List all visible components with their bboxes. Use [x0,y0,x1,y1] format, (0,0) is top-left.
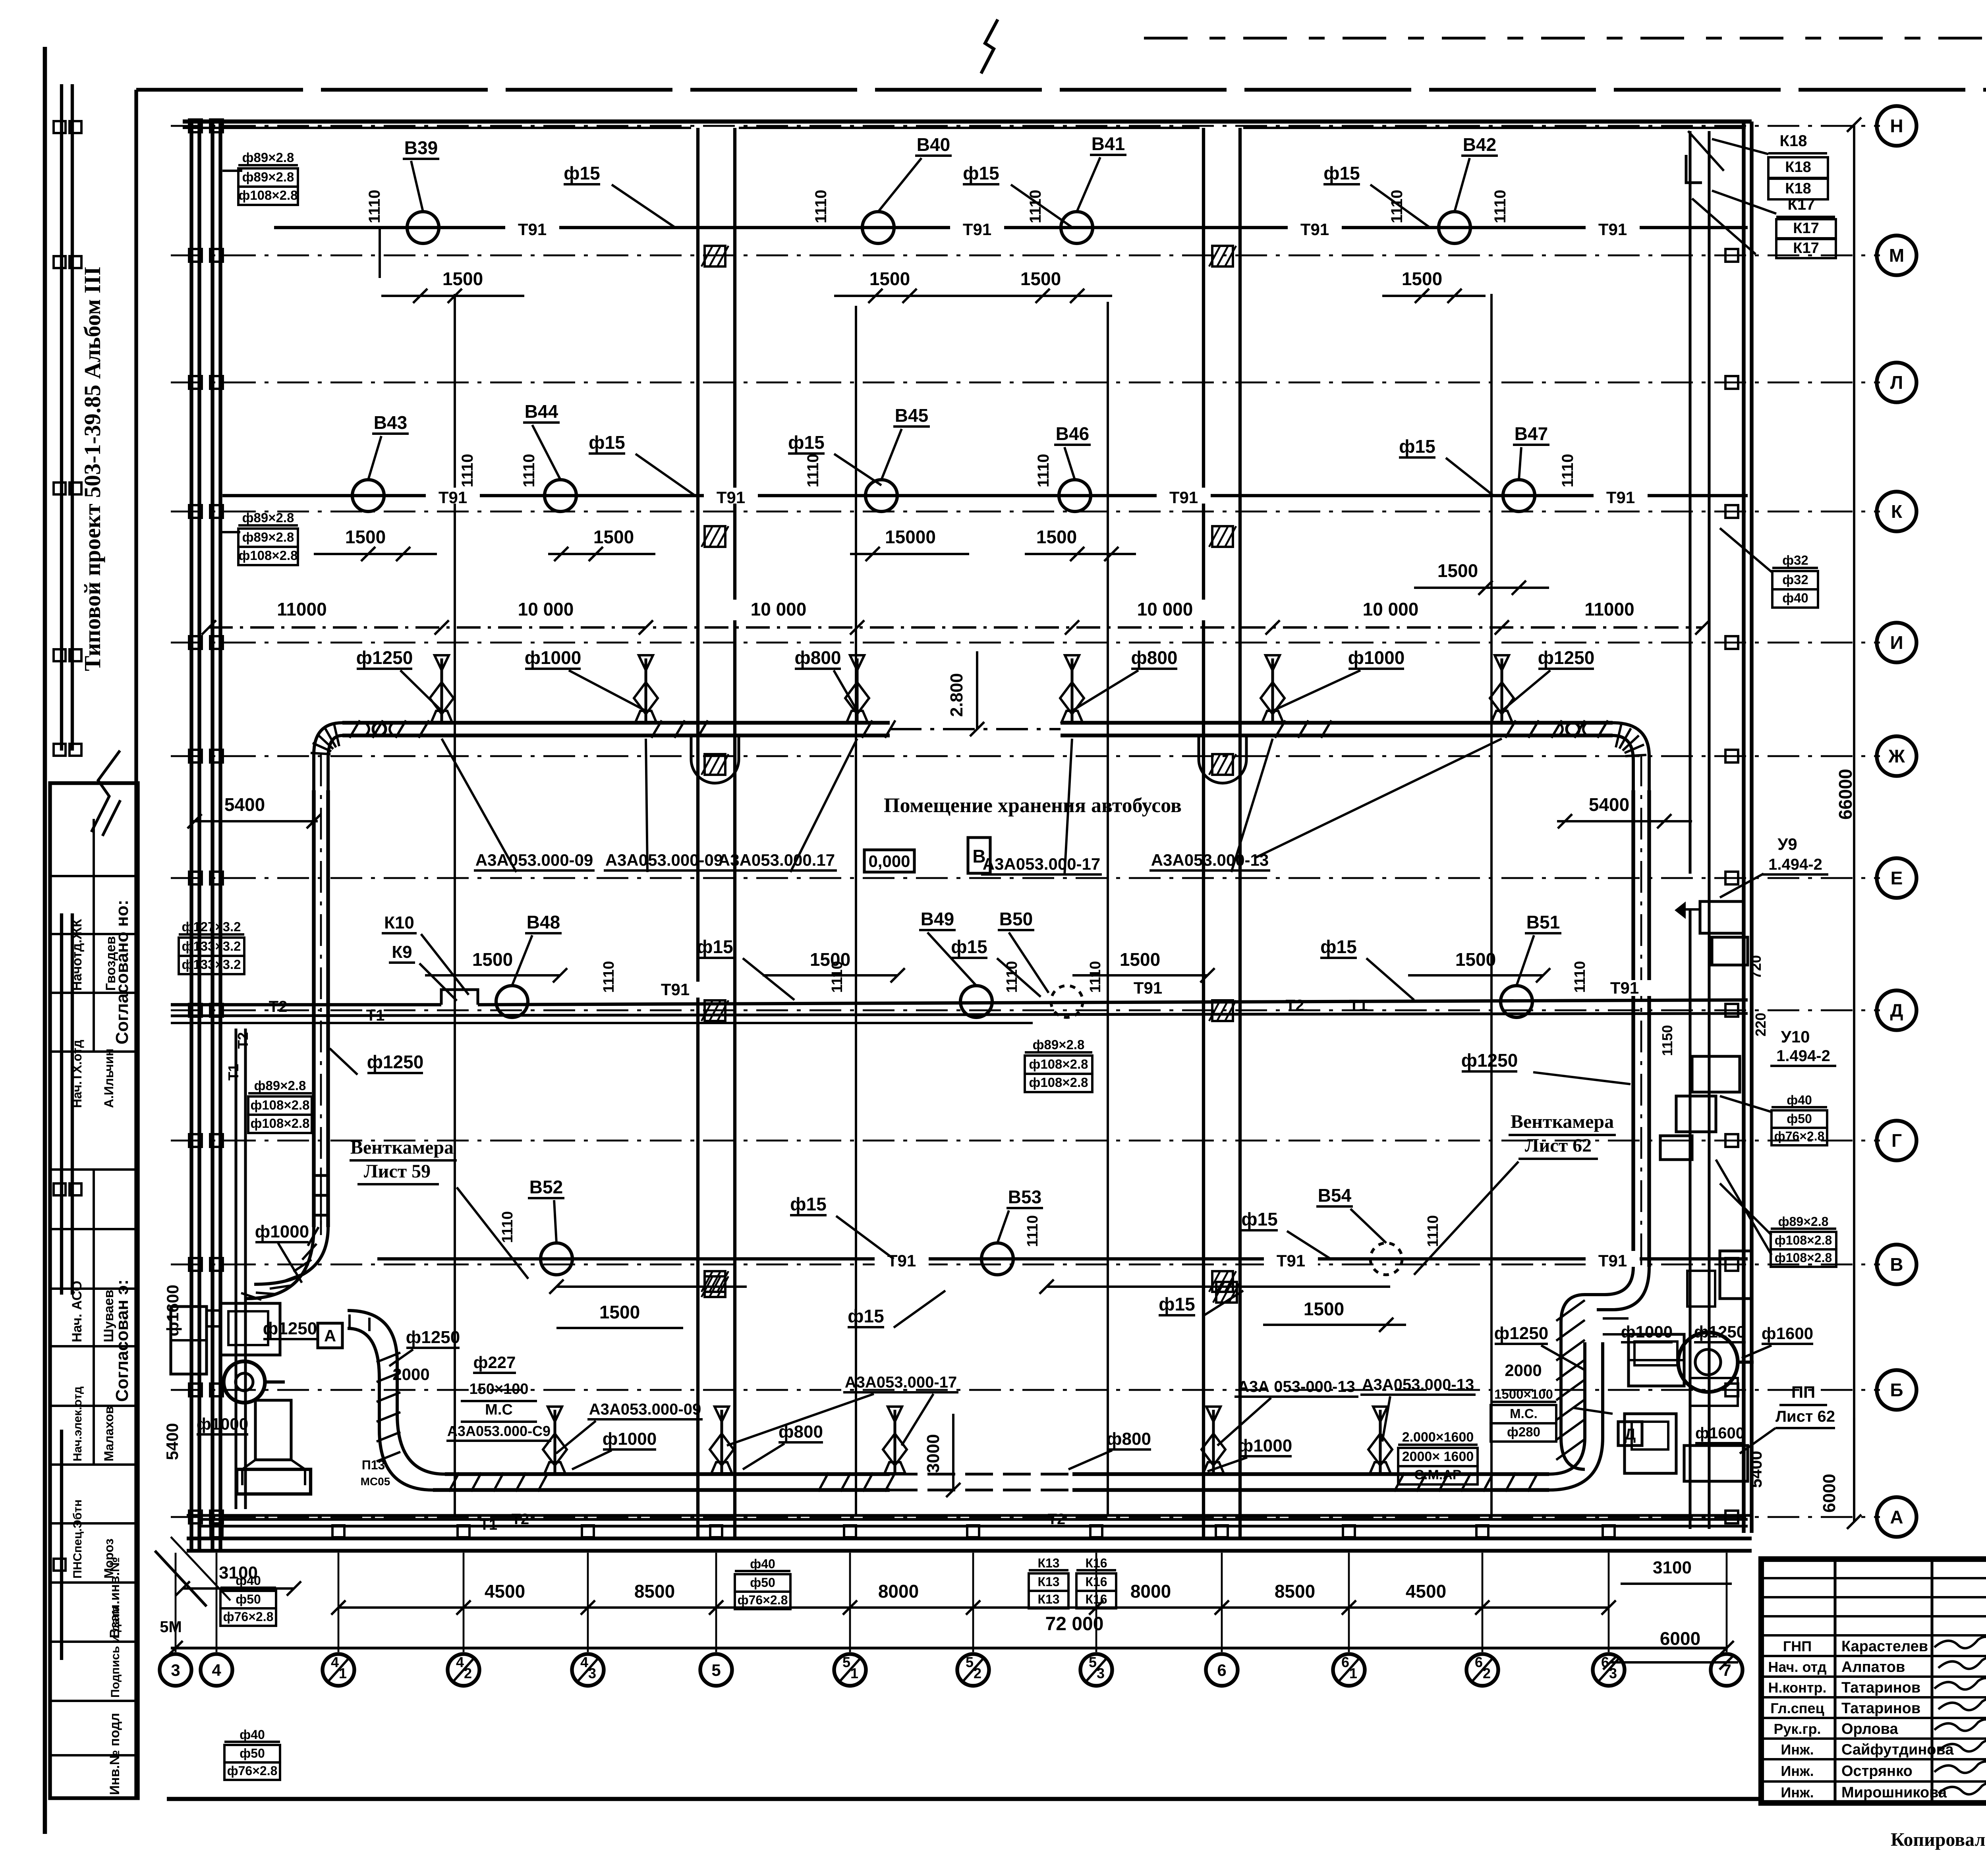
duct riser valves row 1 [430,655,1514,722]
svg-text:1110: 1110 [1087,961,1104,993]
svg-text:Т91: Т91 [1134,979,1162,997]
svg-text:К18: К18 [1785,159,1811,176]
building top wall [183,122,1752,128]
svg-text:ф108×2.8: ф108×2.8 [250,1116,309,1131]
svg-text:ф133×3.2: ф133×3.2 [182,939,241,953]
svg-text:150×100: 150×100 [469,1381,529,1397]
svg-text:К18: К18 [1785,180,1811,197]
svg-text:1500: 1500 [1120,949,1160,970]
svg-text:Сайфутдинова: Сайфутдинова [1841,1741,1954,1758]
kopiroval line [1891,1829,1986,1854]
svg-text:А: А [324,1326,336,1345]
svg-text:8000: 8000 [1130,1581,1171,1602]
svg-text:1.494-2: 1.494-2 [1768,856,1822,873]
svg-text:6000: 6000 [1820,1474,1839,1513]
svg-text:1500: 1500 [345,527,386,547]
left cluster labels [163,1222,551,1488]
svg-text:1500: 1500 [1402,268,1442,289]
svg-text:1500: 1500 [1437,560,1478,581]
svg-text:4500: 4500 [1406,1581,1446,1602]
svg-text:ф15: ф15 [589,432,625,453]
svg-text:720: 720 [1748,955,1764,979]
svg-text:К13: К13 [1037,1556,1059,1570]
svg-text:ф1600: ф1600 [1762,1324,1813,1343]
svg-text:ф15: ф15 [848,1306,884,1326]
svg-text:1500: 1500 [1036,527,1077,547]
svg-text:Инж.: Инж. [1781,1763,1814,1779]
svg-text:Т91: Т91 [1598,1251,1627,1270]
left vertical duct [314,755,328,1231]
svg-text:К17: К17 [1793,240,1819,257]
svg-text:А3А053.000-13: А3А053.000-13 [1362,1376,1474,1393]
svg-text:А3А053.000-09: А3А053.000-09 [605,851,723,869]
svg-text:Помещение хранения автобусов: Помещение хранения автобусов [884,794,1182,817]
svg-text:ф50: ф50 [1787,1112,1812,1126]
svg-text:Т91: Т91 [1169,488,1198,507]
svg-text:ф15: ф15 [1241,1209,1277,1229]
svg-text:ф32: ф32 [1782,553,1808,567]
svg-text:0,000: 0,000 [868,852,910,870]
svg-text:4: 4 [212,1661,221,1679]
svg-text:ф1250: ф1250 [367,1052,424,1072]
svg-text:ф133×3.2: ф133×3.2 [182,957,241,972]
svg-text:ф800: ф800 [795,647,841,668]
svg-text:1110: 1110 [459,454,476,488]
svg-text:5: 5 [1089,1654,1097,1670]
svg-text:ф1000: ф1000 [525,647,582,668]
svg-text:Инж.: Инж. [1781,1741,1814,1758]
svg-text:МС05: МС05 [361,1475,390,1488]
svg-text:ф1250: ф1250 [1461,1050,1518,1071]
svg-text:6: 6 [1341,1654,1349,1670]
pipe row 1 labels [366,133,1509,278]
svg-text:К17: К17 [1788,196,1815,213]
svg-text:Т2: Т2 [1048,1511,1065,1528]
svg-text:ф50: ф50 [236,1592,261,1606]
svg-text:В44: В44 [525,401,558,422]
svg-text:Т91: Т91 [439,488,467,507]
dim 5400 right [1557,794,1692,828]
svg-text:11000: 11000 [1584,599,1634,620]
svg-text:В41: В41 [1092,133,1125,154]
pipe size stack left K-axis [220,510,298,565]
svg-text:3100: 3100 [1653,1558,1692,1577]
svg-text:1110: 1110 [366,190,383,224]
svg-text:ф127×3.2: ф127×3.2 [182,919,241,934]
svg-text:Ж: Ж [1888,746,1905,766]
svg-text:ф280: ф280 [1507,1424,1540,1439]
svg-text:1110: 1110 [804,454,822,488]
heating pipe row 3 [171,979,1748,1024]
svg-text:72 000: 72 000 [1045,1614,1104,1635]
svg-text:5400: 5400 [1589,794,1629,815]
svg-text:В51: В51 [1526,912,1560,932]
main duct left elbow hatch [311,724,339,754]
svg-text:В48: В48 [527,912,560,932]
svg-text:5400: 5400 [163,1423,182,1460]
interior column line axis 4/2 [454,294,456,1515]
svg-text:1110: 1110 [1425,1215,1441,1247]
svg-text:К16: К16 [1085,1592,1107,1606]
svg-text:Малахов: Малахов [102,1406,116,1461]
pipe row 1 dimensions [381,268,1486,303]
svg-text:Т91: Т91 [1277,1251,1305,1270]
svg-text:2.800: 2.800 [947,673,966,717]
svg-text:К13: К13 [1037,1575,1059,1589]
sidebar project title rotated text [79,266,105,671]
svg-text:П13: П13 [362,1458,385,1472]
svg-text:10 000: 10 000 [1137,599,1193,620]
svg-text:5400: 5400 [224,794,265,815]
section mark B box [968,838,990,873]
svg-text:ф108×2.8: ф108×2.8 [1775,1233,1832,1247]
title block grid left [1761,1559,1986,1803]
pipe row 2 labels [368,401,1576,496]
svg-text:4: 4 [331,1654,339,1670]
svg-text:4: 4 [580,1654,588,1670]
svg-text:Карастелев: Карастелев [1841,1638,1928,1655]
svg-text:Венткамера: Венткамера [1511,1111,1614,1132]
svg-text:ф15: ф15 [1399,436,1435,457]
svg-text:К18: К18 [1780,132,1807,150]
interior double column line axis 6 [1204,128,1240,1538]
svg-text:5: 5 [711,1661,721,1679]
pipe row 3 labels [382,909,1588,1001]
svg-text:Т91: Т91 [963,220,991,239]
svg-text:5400: 5400 [1746,1451,1765,1488]
svg-text:Инж.: Инж. [1781,1784,1814,1801]
bottom heating pipes T1 T2 [199,1511,1748,1533]
svg-text:ф40: ф40 [236,1573,261,1588]
svg-text:2000× 1600: 2000× 1600 [1402,1449,1474,1464]
heating pipe row 2 T91 [222,480,1748,511]
svg-text:Инв.№ подл: Инв.№ подл [107,1713,122,1795]
pipe row 2 dimensions [314,527,1549,595]
sidebar stamp table outer [50,783,138,1798]
right U10 label [1720,1027,1836,1145]
svg-text:ф15: ф15 [1323,163,1360,183]
svg-text:ф108×2.8: ф108×2.8 [1775,1251,1832,1265]
svg-text:Т91: Т91 [1300,220,1329,239]
break mark top [981,19,998,73]
svg-text:Мирошникова: Мирошникова [1841,1784,1947,1801]
svg-text:Г: Г [1891,1130,1902,1151]
right vertical duct [1633,755,1649,1271]
bottom duct spec labels [556,1374,1476,1453]
svg-text:ф1600: ф1600 [1695,1424,1745,1442]
main duct circle symbol left [365,723,393,735]
interior column line axis 5/3 [1107,302,1109,1515]
svg-text:К16: К16 [1085,1556,1107,1570]
svg-text:А3А053.000-09: А3А053.000-09 [589,1401,701,1418]
duct label f1250 left [330,1048,423,1075]
duct spec labels [442,739,1502,876]
building left wall column squares [189,120,223,1523]
bottom duct hatch [449,1473,1538,1492]
svg-text:В42: В42 [1463,134,1496,155]
main duct hatch left [350,720,429,738]
svg-text:ф1000: ф1000 [1348,647,1405,668]
svg-text:ф40: ф40 [750,1557,775,1571]
bottom dim row 2 [160,1558,1738,1780]
svg-text:ф76×2.8: ф76×2.8 [223,1610,274,1624]
svg-text:Лист 62: Лист 62 [1525,1135,1592,1156]
svg-text:ф89×2.8: ф89×2.8 [242,150,294,165]
bottom small stacks [176,1556,1116,1626]
svg-text:ф50: ф50 [240,1746,265,1760]
right K18 K17 stacks [1712,132,1836,258]
svg-text:8500: 8500 [634,1581,675,1602]
bottom duct labels [572,1422,1292,1471]
svg-text:Т2: Т2 [269,998,288,1015]
grille size stack [1398,1430,1478,1484]
interior column line axis 6/2 [1490,294,1493,1515]
svg-text:220: 220 [1752,1013,1769,1036]
svg-text:ф108×2.8: ф108×2.8 [250,1098,309,1112]
building bottom-left corner break [155,1537,230,1606]
svg-text:М.С.: М.С. [1510,1406,1538,1421]
svg-text:ф15: ф15 [564,163,600,183]
svg-text:ф40: ф40 [1787,1093,1812,1107]
svg-text:А3А053.000-17: А3А053.000-17 [845,1374,957,1391]
svg-text:5М: 5М [160,1618,182,1636]
svg-text:ф76×2.8: ф76×2.8 [227,1764,278,1778]
svg-text:6: 6 [1217,1661,1226,1679]
svg-text:Л: Л [1890,372,1903,393]
left ventkamera equipment cluster [171,1172,445,1494]
svg-text:ф1600: ф1600 [163,1285,182,1336]
svg-text:6000: 6000 [1660,1628,1700,1649]
inner frame left line [134,90,138,1799]
svg-text:ф89×2.8: ф89×2.8 [254,1078,306,1093]
number axis circles bottom [160,1654,1743,1686]
svg-text:ф40: ф40 [1782,591,1808,605]
svg-text:К16: К16 [1085,1575,1107,1589]
svg-text:1110: 1110 [499,1211,516,1243]
svg-text:В45: В45 [895,405,928,426]
svg-text:ф15: ф15 [790,1194,826,1214]
svg-text:1500: 1500 [1020,268,1061,289]
heating pipe row 1 T91 [274,212,1748,243]
title block signatures [1934,1637,1986,1795]
svg-text:2000: 2000 [392,1365,429,1384]
svg-text:Т1: Т1 [480,1517,497,1533]
svg-text:Т91: Т91 [661,980,690,999]
svg-text:ф800: ф800 [1131,647,1178,668]
svg-text:Д: Д [1890,1000,1903,1021]
outer border left line [43,47,47,1834]
svg-text:К13: К13 [1037,1592,1059,1606]
svg-text:Подпись и дата: Подпись и дата [109,1605,122,1698]
svg-text:1110: 1110 [520,454,538,488]
svg-text:Алпатов: Алпатов [1841,1659,1905,1675]
svg-text:8000: 8000 [878,1581,919,1602]
svg-text:1500: 1500 [1304,1299,1344,1319]
svg-text:С.М.АР: С.М.АР [1414,1467,1462,1482]
svg-text:М.С: М.С [485,1401,513,1418]
svg-text:Гл.спец: Гл.спец [1770,1700,1824,1716]
column spacing dimension row [202,599,1710,635]
svg-text:ф89×2.8: ф89×2.8 [1033,1037,1085,1052]
building right wall [1690,122,1752,1533]
svg-text:ф50: ф50 [750,1575,775,1590]
svg-text:1110: 1110 [1491,190,1509,224]
svg-text:3: 3 [171,1661,180,1679]
inner frame top dashed line [136,88,1986,91]
sidebar stamp rotated texts [70,900,132,1795]
title block names [1768,1638,1954,1801]
svg-text:ф32: ф32 [1782,572,1808,587]
svg-text:Нач.элек.отд: Нач.элек.отд [71,1386,84,1461]
pipe size stack venkamera [248,1078,312,1133]
inner frame bottom line [167,1797,1761,1801]
svg-text:ф76×2.8: ф76×2.8 [738,1593,788,1607]
vertical dim 2800 [947,651,984,736]
svg-text:ф89×2.8: ф89×2.8 [242,170,294,184]
svg-text:В43: В43 [374,412,407,433]
interior column line axis 5/1 [855,306,857,1515]
outside-left pipe run [54,84,81,756]
right ventkamera equipment cluster [1556,1251,1754,1481]
pipe size stack top-left [222,150,298,205]
svg-text:1500: 1500 [593,527,634,547]
right f89 stack [1716,1160,1836,1267]
svg-text:1500: 1500 [442,268,483,289]
right 66000 dimension line [1835,118,1861,1529]
right unit U9 at E axis [1675,901,1764,985]
svg-text:А3А053.000-09: А3А053.000-09 [475,851,593,869]
main supply duct run [314,723,1649,790]
right f32 stack top [1720,528,1818,608]
svg-text:Орлова: Орлова [1841,1721,1899,1737]
svg-text:1110: 1110 [1027,190,1044,224]
svg-text:Д: Д [1625,1426,1636,1443]
outside-left pipe run lower [54,913,81,1660]
bottom duct run [433,1342,1603,1490]
svg-text:Типовой проект 503-1-39.85: Типовой проект 503-1-39.85 Альбом III [79,266,105,671]
duct diameter labels row 1 [356,647,1595,711]
svg-text:У9: У9 [1777,835,1797,853]
svg-text:Е: Е [1891,868,1903,888]
svg-text:ф40: ф40 [240,1727,265,1742]
svg-text:Т91: Т91 [887,1251,916,1270]
svg-text:6: 6 [1475,1654,1483,1670]
svg-text:ф227: ф227 [473,1353,516,1372]
pipe row 3 dimensions [425,949,1550,982]
svg-text:3000: 3000 [923,1434,943,1473]
svg-text:Т91: Т91 [1606,488,1635,507]
svg-text:1110: 1110 [601,961,617,993]
svg-text:Б: Б [1890,1380,1903,1400]
svg-text:В: В [1890,1254,1903,1275]
svg-text:В52: В52 [529,1177,563,1197]
svg-text:1150: 1150 [1659,1025,1675,1056]
svg-text:1110: 1110 [1572,961,1588,993]
svg-text:1110: 1110 [1559,454,1576,488]
svg-text:4500: 4500 [485,1581,525,1602]
svg-text:8500: 8500 [1275,1581,1315,1602]
svg-text:А3А053.000-13: А3А053.000-13 [1151,851,1269,869]
svg-text:10 000: 10 000 [518,599,574,620]
svg-text:Н.контр.: Н.контр. [1768,1679,1827,1696]
svg-text:ф15: ф15 [1320,936,1356,957]
svg-text:Рук.гр.: Рук.гр. [1773,1721,1821,1737]
svg-text:К9: К9 [392,942,412,962]
building right wall column squares [1725,249,1738,1523]
svg-text:ф89×2.8: ф89×2.8 [242,510,294,525]
room label [884,794,1182,817]
svg-text:Лист 59: Лист 59 [364,1161,431,1182]
svg-text:1500: 1500 [472,949,513,970]
svg-text:ф1000: ф1000 [1238,1436,1292,1455]
pipe row 4 labels [499,1177,1441,1328]
duct riser valves row 2 [543,1407,1392,1473]
svg-text:ПП: ПП [1791,1383,1815,1401]
svg-text:1500: 1500 [810,949,850,970]
svg-text:ф1250: ф1250 [406,1328,460,1347]
svg-text:К: К [1891,501,1903,522]
svg-text:2000: 2000 [1505,1361,1542,1380]
svg-text:К17: К17 [1793,220,1819,237]
bottom dim row 1 [331,1581,1616,1615]
ventkamera left label [350,1137,528,1279]
svg-text:Т2: Т2 [512,1511,529,1528]
svg-text:Шуваев: Шуваев [101,1290,116,1342]
heating pipe row 4 T91 [377,1243,1748,1275]
right U9 label [1720,835,1828,897]
svg-text:10 000: 10 000 [751,599,807,620]
svg-text:ф1250: ф1250 [356,647,413,668]
svg-text:В40: В40 [917,134,950,155]
svg-text:ф1000: ф1000 [197,1415,248,1433]
svg-text:Т91: Т91 [717,488,745,507]
svg-text:5: 5 [842,1654,850,1670]
svg-text:Т2: Т2 [235,1032,251,1049]
svg-text:А3А053.000-С9: А3А053.000-С9 [447,1423,551,1439]
svg-text:ПНСпец.Эбтн: ПНСпец.Эбтн [71,1500,84,1579]
svg-text:ф15: ф15 [788,432,824,453]
svg-text:В47: В47 [1515,423,1548,444]
level mark box [864,850,914,872]
svg-text:Т1: Т1 [1349,997,1368,1014]
svg-text:2.000×1600: 2.000×1600 [1402,1430,1474,1445]
svg-text:1110: 1110 [812,190,830,224]
svg-text:1.494-2: 1.494-2 [1776,1047,1830,1065]
break line zigzag upper left [91,751,120,836]
svg-text:66000: 66000 [1835,769,1856,820]
svg-text:В46: В46 [1056,423,1089,444]
svg-text:4: 4 [456,1654,464,1670]
svg-text:Т91: Т91 [518,220,547,239]
svg-text:В53: В53 [1008,1187,1041,1207]
svg-text:Венткамера: Венткамера [350,1137,454,1158]
svg-text:1500: 1500 [1455,949,1496,970]
interior double column line axis 5 [698,128,735,1538]
svg-text:1500: 1500 [869,268,910,289]
svg-text:А: А [1890,1507,1903,1527]
svg-text:Т1: Т1 [225,1064,241,1081]
right duct f1250 label [1461,1050,1631,1084]
svg-text:ф1250: ф1250 [263,1319,317,1338]
svg-text:А3А053.000.17: А3А053.000.17 [718,851,835,869]
svg-text:1110: 1110 [1035,454,1052,488]
svg-text:1500: 1500 [599,1302,640,1322]
right elbow labels [1491,1324,1613,1442]
svg-text:ф15: ф15 [951,936,987,957]
letter axis circles right [1877,106,1916,1537]
ventkamera right label [1414,1111,1616,1275]
main duct circle symbol right [1559,723,1587,735]
